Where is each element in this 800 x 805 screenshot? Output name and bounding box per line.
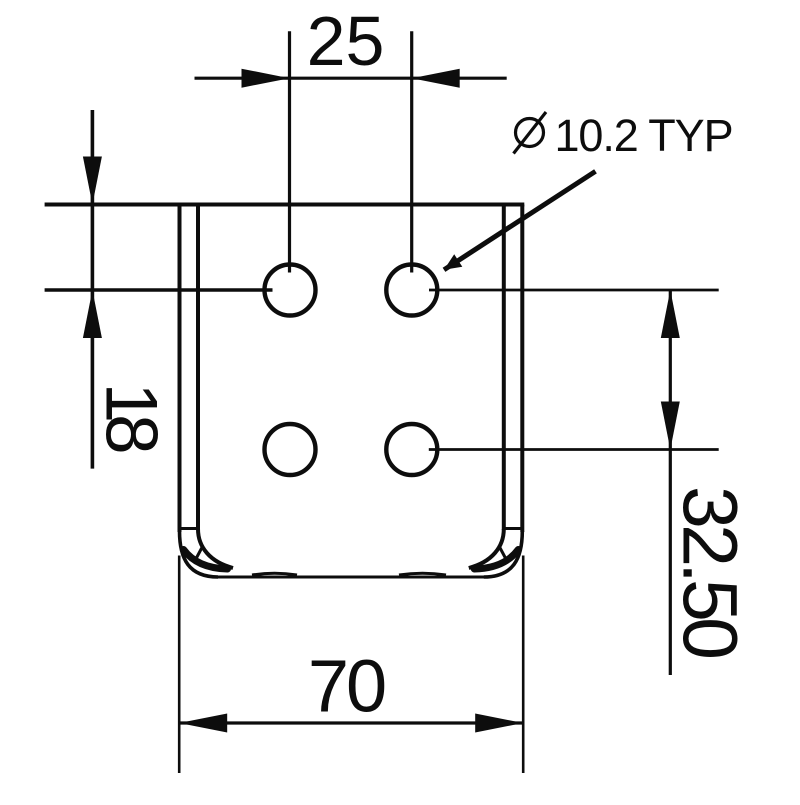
svg-text:25: 25	[307, 2, 385, 80]
svg-text:32.50: 32.50	[667, 486, 753, 657]
svg-text:70: 70	[308, 645, 385, 728]
svg-text:10.2 TYP: 10.2 TYP	[555, 110, 733, 161]
svg-text:18: 18	[91, 383, 172, 453]
